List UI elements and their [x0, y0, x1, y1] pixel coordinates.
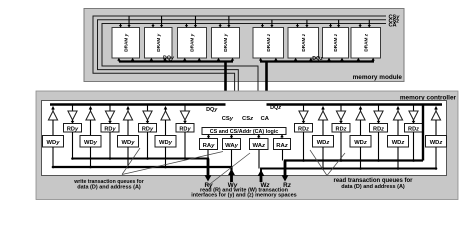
- wire DQ pin of U4: [217, 58, 220, 62]
- svg-text:DRAM y: DRAM y: [123, 33, 128, 51]
- wire CA arrow into U4: [219, 24, 222, 28]
- svg-text:WDz: WDz: [430, 140, 443, 146]
- wire DQ pin of U5: [259, 58, 262, 62]
- svg-text:WDz: WDz: [392, 140, 405, 146]
- annotation: write transaction queues: [73, 179, 143, 190]
- wire RDy1 drop to read line: [71, 132, 74, 160]
- DRAM chip U6 (DRAM z): [288, 28, 319, 59]
- DRAM chip U7 (DRAM z): [323, 28, 349, 59]
- wire CSy arrow into U4: [227, 16, 230, 28]
- wire RAz to CS logic: [280, 134, 283, 138]
- wire RDy2 drop to read line: [109, 132, 112, 160]
- wire DQ pin of U3: [198, 58, 201, 62]
- wire DQ pin of U6: [309, 58, 312, 62]
- svg-text:WAy: WAy: [225, 143, 239, 149]
- wire z write line to Wz: [261, 169, 436, 183]
- wire RDz3 drop to read line: [377, 132, 380, 162]
- buffer (up tri) for WDy2: [86, 106, 95, 136]
- svg-text:memory module: memory module: [353, 74, 403, 81]
- wire CSz arrow into U5: [270, 20, 273, 28]
- wire WDz3 drop to write line: [397, 147, 400, 170]
- queue box WDy1: [43, 136, 64, 148]
- svg-text:DRAM z: DRAM z: [266, 33, 271, 51]
- wire CSy arrow into U3: [194, 16, 197, 28]
- svg-text:WAz: WAz: [253, 143, 266, 149]
- queue box WDz3: [388, 136, 409, 148]
- wire CSy arrow into U2: [160, 16, 163, 28]
- svg-text:CA: CA: [261, 116, 270, 122]
- wire WDy3 drop to write line: [127, 147, 130, 168]
- svg-text:WDz: WDz: [317, 140, 330, 146]
- buffer (down tri) for RDy4: [180, 105, 189, 124]
- annotation: interfaces: [191, 188, 296, 199]
- wire CSy bus (top, left, bottom wrap and drop to controller): [93, 16, 386, 128]
- interface arrow Wz (up): [258, 170, 265, 182]
- DRAM chip U8 (DRAM z): [351, 28, 381, 59]
- wire DQ pin of U2: [163, 58, 166, 62]
- wire WDy4 drop to write line: [164, 147, 167, 168]
- queue box WDy3: [118, 136, 139, 148]
- svg-text:RDy: RDy: [179, 127, 191, 133]
- DRAM chip U2 (DRAM y): [145, 28, 173, 59]
- wire RDy4 drop to read line: [184, 132, 187, 160]
- queue box RDz2: [332, 124, 350, 133]
- memory controller box: [36, 91, 458, 200]
- wire RDz2 drop to read line: [340, 132, 343, 162]
- wire DQy drop from module to controller y-bus: [224, 62, 227, 105]
- svg-text:RDy: RDy: [67, 127, 79, 133]
- DRAM chip U3 (DRAM y): [178, 28, 207, 59]
- wire DQ pin of U4: [231, 58, 234, 62]
- wire y read line to Ry: [73, 159, 209, 176]
- wire callout from write-queues text to WDy area: [122, 148, 140, 175]
- annotation: read transaction queues: [333, 178, 413, 190]
- wire DQ pin of U2: [150, 58, 153, 62]
- wire WAz drop to interface line: [258, 150, 260, 169]
- wire DQ pin of U1: [117, 58, 120, 62]
- buffer (up tri) for WDy3: [123, 106, 132, 136]
- wire callout from write-queues text to WAy box: [122, 152, 223, 175]
- queue box RDy3: [139, 124, 157, 133]
- svg-text:CSy: CSy: [222, 116, 234, 122]
- interface arrow Rz (down): [282, 161, 289, 182]
- svg-text:CS and CS/Addr (CA) logic: CS and CS/Addr (CA) logic: [210, 129, 279, 135]
- svg-text:data (D) and address (A): data (D) and address (A): [77, 184, 141, 190]
- buffer (down tri) for RDy3: [143, 105, 152, 124]
- svg-text:RDz: RDz: [298, 127, 309, 133]
- queue box WAz: [250, 139, 269, 150]
- wire CA bus (top, left, bottom wrap and drop to controller): [102, 24, 386, 128]
- wire DQ pin of U6: [294, 58, 297, 62]
- svg-text:RDy: RDy: [142, 127, 154, 133]
- queue box WAy: [223, 139, 241, 150]
- buffer (down tri) for RDz1: [299, 105, 308, 124]
- wire z-side internal DQ bus: [267, 103, 443, 106]
- wire CA arrow into U7: [329, 24, 332, 28]
- wire RDz1 drop to read line: [302, 132, 305, 162]
- svg-text:interfaces for (y) and (z) mem: interfaces for (y) and (z) memory spaces: [191, 193, 296, 199]
- svg-text:CA: CA: [389, 23, 397, 29]
- wire CA arrow into U6: [296, 24, 299, 28]
- wire DQ pin of U8: [371, 58, 374, 62]
- CS and CS/Addr (CA) logic box U-CS: [202, 128, 286, 136]
- svg-text:WDy: WDy: [84, 140, 98, 146]
- wire CSz arrow into U6: [305, 20, 308, 28]
- svg-text:DRAM z: DRAM z: [363, 33, 368, 51]
- svg-text:data (D) and address (A): data (D) and address (A): [341, 184, 405, 190]
- wire CSz arrow into U7: [337, 20, 340, 28]
- svg-text:WDz: WDz: [354, 140, 367, 146]
- svg-text:WDy: WDy: [47, 140, 61, 146]
- queue box RDy2: [101, 124, 119, 133]
- svg-text:CSz: CSz: [242, 116, 253, 122]
- buffer (up tri) for WDz4: [431, 106, 440, 136]
- controller inner box: [42, 101, 447, 176]
- wire CA arrow into U3: [185, 24, 188, 28]
- svg-text:DRAM y: DRAM y: [190, 33, 195, 51]
- wire y-side internal DQ bus: [50, 103, 226, 106]
- wire callout from read-queues text to WDz area: [327, 153, 345, 176]
- buffer (up tri) for WDz1: [318, 106, 327, 136]
- buffer (down tri) for RDz2: [336, 105, 345, 124]
- queue box WDy2: [80, 136, 101, 148]
- buffer (down tri) for RDz4: [409, 105, 418, 124]
- queue box WDz1: [313, 136, 334, 148]
- wire CSz bus (top, left, bottom wrap and drop to controller): [98, 20, 387, 128]
- svg-text:RAz: RAz: [276, 143, 288, 149]
- wire RAy drop to interface line: [207, 150, 209, 159]
- queue box WDy4: [155, 136, 176, 148]
- DRAM chip U4 (DRAM y): [212, 28, 240, 59]
- buffer (up tri) for WDz3: [393, 106, 402, 136]
- buffer (up tri) for WDy1: [48, 106, 57, 136]
- svg-text:RDz: RDz: [336, 127, 347, 133]
- wire callout from interfaces text upward: [208, 153, 250, 186]
- wire DQz drop from module to controller z-bus: [265, 62, 268, 105]
- svg-text:RAy: RAy: [203, 143, 216, 149]
- wire DQ pin of U1: [131, 58, 134, 62]
- wire callout from read-queues text to RDz area: [310, 150, 327, 176]
- queue box RDz4: [405, 124, 423, 133]
- wire WDz2 drop to write line: [359, 147, 362, 170]
- wire WDz4 drop to write line: [435, 147, 438, 170]
- wire WDy1 drop to write line: [52, 147, 55, 168]
- wire CA arrow into U8: [359, 24, 362, 28]
- svg-text:RDz: RDz: [408, 127, 419, 133]
- buffer (down tri) for RDz3: [374, 105, 383, 124]
- wire DQ pin of U3: [183, 58, 186, 62]
- wire y write line to Wy: [53, 167, 232, 182]
- queue box RAz: [274, 139, 291, 150]
- interface arrow Ry (down): [205, 159, 212, 182]
- queue box WDz4: [426, 136, 447, 148]
- wire WAy drop to interface line: [231, 150, 233, 168]
- svg-text:DQz: DQz: [312, 56, 323, 62]
- wire CA arrow into U1: [119, 24, 122, 28]
- wire z read line to Rz: [285, 161, 423, 176]
- wire DQ pin of U5: [274, 58, 277, 62]
- buffer (up tri) for WDz2: [356, 106, 365, 136]
- svg-text:WDy: WDy: [159, 140, 173, 146]
- DRAM chip U5 (DRAM z): [253, 28, 284, 59]
- buffer (up tri) for WDy4: [161, 106, 170, 136]
- svg-text:DRAM z: DRAM z: [301, 33, 306, 51]
- memory module box: [84, 9, 404, 82]
- interface arrow Wy (up): [228, 169, 235, 182]
- wire WAz to CS logic: [257, 134, 260, 138]
- svg-text:DRAM y: DRAM y: [156, 33, 161, 51]
- wire riser from z-bus to z read line: [422, 105, 424, 161]
- wire WDz1 drop to write line: [322, 147, 325, 170]
- wire RAz drop to interface line: [282, 150, 284, 161]
- buffer (down tri) for RDy2: [105, 105, 114, 124]
- wire WAy to CS logic: [230, 134, 233, 138]
- queue box RAy: [200, 139, 218, 150]
- wire CA arrow into U5: [261, 24, 264, 28]
- wire CA arrow into U2: [151, 24, 154, 28]
- DRAM chip U1 (DRAM y): [112, 28, 140, 59]
- svg-text:DRAM y: DRAM y: [223, 33, 228, 51]
- svg-text:RDz: RDz: [373, 127, 384, 133]
- wire WDy2 drop to write line: [89, 147, 92, 168]
- wire DQ pin of U8: [357, 58, 360, 62]
- svg-text:RDy: RDy: [104, 127, 116, 133]
- wire DQ pin of U7: [340, 58, 343, 62]
- wire CSy arrow into U1: [127, 16, 130, 28]
- wire DQ pin of U7: [327, 58, 330, 62]
- wire DQz bus (module): [260, 60, 374, 62]
- queue box RDy1: [64, 124, 82, 133]
- queue box RDz1: [295, 124, 313, 133]
- buffer (down tri) for RDy1: [68, 105, 77, 124]
- svg-text:DQy: DQy: [163, 56, 175, 62]
- queue box RDy4: [176, 124, 194, 133]
- wire RDy3 drop to read line: [146, 132, 149, 160]
- queue box RDz3: [370, 124, 388, 133]
- svg-text:DRAM z: DRAM z: [333, 33, 338, 51]
- wire CSz arrow into U8: [368, 20, 371, 28]
- wire RAy to CS logic: [207, 134, 210, 138]
- wire DQy bus (module): [119, 60, 233, 62]
- wire RDz4 drop to read line: [412, 132, 415, 162]
- svg-text:DQy: DQy: [206, 107, 218, 113]
- queue box WDz2: [350, 136, 371, 148]
- svg-text:WDy: WDy: [122, 140, 136, 146]
